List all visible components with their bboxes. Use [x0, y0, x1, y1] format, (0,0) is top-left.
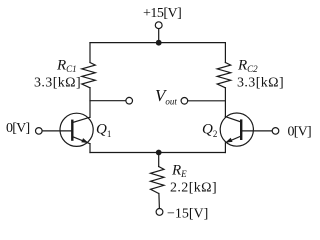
- wire: [89, 88, 91, 117]
- wire: [224, 144, 226, 153]
- wire: [241, 130, 272, 132]
- terminal (Q1 collector output): [126, 97, 133, 104]
- wire: [89, 144, 91, 153]
- svg-text:3.3[kΩ]: 3.3[kΩ]: [237, 76, 284, 91]
- terminal -15V: [156, 209, 163, 216]
- resistor RE: [151, 167, 165, 194]
- wire: [90, 42, 225, 44]
- wire: [158, 29, 160, 43]
- svg-text:0[V]: 0[V]: [6, 121, 30, 136]
- transistor Q1: [60, 113, 93, 146]
- wire: [90, 100, 126, 102]
- transistor Q2: [220, 113, 253, 146]
- wire: [90, 152, 225, 154]
- terminal 0V (right input): [272, 128, 279, 135]
- wire: [224, 43, 226, 63]
- wire: [42, 130, 72, 132]
- terminal Vout: [181, 98, 188, 105]
- wire: [89, 43, 91, 63]
- svg-text:−15[V]: −15[V]: [167, 207, 208, 222]
- resistor RC2: [217, 63, 231, 88]
- resistor RC1: [82, 63, 96, 88]
- wire: [158, 153, 160, 167]
- wire: [158, 194, 161, 209]
- svg-text:3.3[kΩ]: 3.3[kΩ]: [34, 76, 81, 91]
- node (top junction): [156, 40, 162, 46]
- wire: [188, 100, 225, 102]
- svg-text:0[V]: 0[V]: [288, 125, 312, 140]
- terminal 0V (left input): [36, 128, 43, 135]
- node (bottom junction): [156, 150, 162, 156]
- wire: [224, 88, 226, 117]
- svg-text:+15[V]: +15[V]: [143, 6, 181, 21]
- svg-text:2.2[kΩ]: 2.2[kΩ]: [170, 181, 217, 196]
- terminal +15V: [155, 22, 162, 29]
